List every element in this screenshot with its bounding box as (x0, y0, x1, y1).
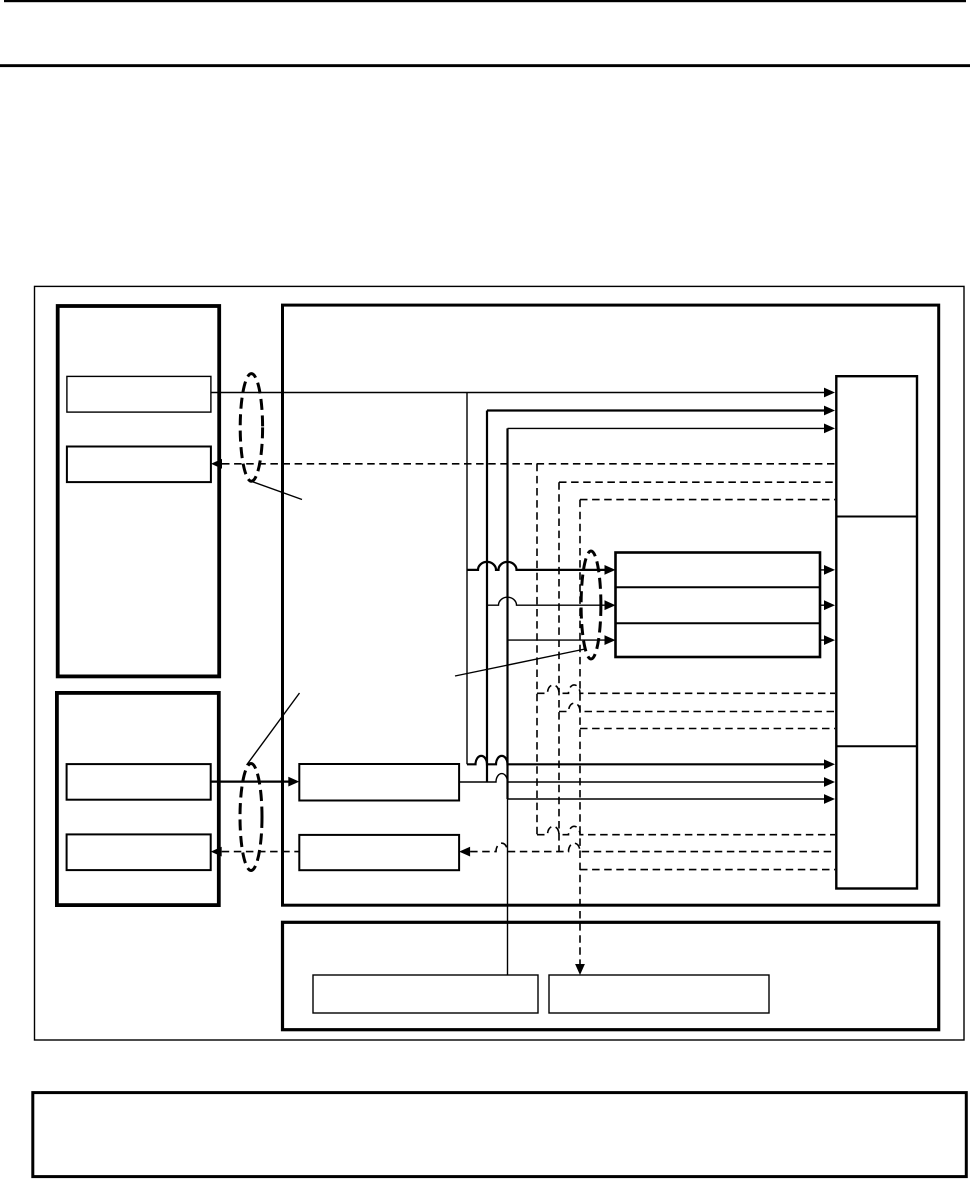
wire row-3 branch (508, 639, 607, 641)
arrowhead row-2 (605, 600, 616, 610)
arrowhead L1 (824, 388, 835, 398)
wire L3b: V3 corner to right module (508, 798, 827, 800)
leader line 1 (ellipse 1 callout) (251, 481, 303, 500)
arrowhead Dmain (left) (211, 459, 222, 469)
register divider 2 (616, 622, 821, 624)
arrowhead LC (288, 777, 299, 787)
wire LC: sub-box B1 to sub-box C1 (211, 780, 289, 782)
dashed wire H5 left: to sub-box B2 (222, 851, 300, 853)
wire L3 (508, 427, 827, 429)
dashed wire D3 (580, 499, 835, 501)
sub-box C2 (central lower) (299, 835, 459, 870)
outer enclosure frame (35, 286, 965, 1040)
sub-box B2 (bottom-left lower) (67, 834, 211, 870)
dashed wire H3 (580, 728, 835, 730)
arrowhead H5 left (211, 847, 222, 857)
dashed cable ellipse 2 (lower left) (240, 764, 262, 871)
arrowhead row-1 (605, 565, 616, 575)
wire V2 drop (486, 411, 488, 783)
leader line 3 (ellipse 2 callout) (247, 693, 300, 765)
wire register row-3 output (820, 639, 826, 641)
arrowhead register row-2 output (824, 600, 835, 610)
central unit box (283, 305, 939, 905)
arrowhead L3b (824, 794, 835, 804)
dashed wire H6 (580, 869, 835, 871)
arrowhead LA (824, 759, 835, 769)
bottom unit box (283, 922, 939, 1029)
wire L2 (487, 409, 826, 411)
dashed vertical DV2 (558, 482, 560, 851)
wire register row-1 output (820, 569, 826, 571)
header bottom rule (0, 64, 970, 67)
dashed vertical DV3 with down arrow to sub-box D2 (579, 500, 581, 964)
arrowhead H5 right (left-pointing) (459, 847, 470, 857)
right module divider 2 (836, 745, 917, 747)
sub-box C1 (central upper) (299, 764, 459, 801)
header top rule (4, 0, 966, 2)
arrowhead row-3 (605, 635, 616, 645)
dashed wire H5 right: DV2 to sub-box C2 and right module, with hops (470, 843, 835, 851)
wire LA: V1 corner to right module bottom with hops (467, 756, 826, 764)
dashed wire H2 with hop (559, 703, 835, 711)
top-left unit box (58, 306, 220, 676)
three-row register box (616, 553, 821, 658)
sub-box A2 (top-left lower) (67, 447, 211, 483)
bottom-left unit box (57, 693, 219, 905)
sub-box B1 (bottom-left upper) (67, 764, 211, 800)
right module divider 1 (836, 516, 917, 518)
dashed wire H4 with hops (537, 826, 835, 834)
register divider 1 (616, 586, 821, 588)
dashed cable ellipse 3 (center) (581, 551, 601, 659)
dashed vertical DV1 (536, 464, 538, 835)
wire row-2 branch with hop (487, 597, 606, 605)
wire row-1 branch with hops (467, 562, 606, 570)
dashed wire H1 with hops (537, 685, 835, 693)
dashed cable ellipse 1 (upper left) (240, 374, 262, 482)
wire register row-2 output (820, 604, 826, 606)
wire LB: sub-box C1 to right module with hop (459, 774, 826, 782)
arrowhead register row-1 output (824, 565, 835, 575)
arrowhead DV3 (down) (575, 964, 585, 975)
dashed wire D2 (559, 481, 835, 483)
right module box (836, 376, 917, 888)
wire V3 drop (506, 428, 508, 799)
arrowhead LB (824, 777, 835, 787)
footer note box (33, 1093, 967, 1177)
arrowhead L2 (824, 406, 835, 416)
sub-box A1 (top-left upper) (67, 376, 211, 412)
wire L1: sub-box A1 to right module (211, 392, 826, 394)
wire V3 extension to sub-box D1 (507, 799, 509, 975)
sub-box D1 (bottom unit left) (313, 975, 538, 1013)
leader line 2 (ellipse 3 callout) (455, 649, 585, 676)
wire V1 drop (466, 393, 468, 765)
dashed wire Dmain: right module to sub-box A2 (222, 463, 835, 465)
sub-box D2 (bottom unit right) (549, 975, 769, 1013)
arrowhead L3 (824, 424, 835, 434)
arrowhead register row-3 output (824, 635, 835, 645)
